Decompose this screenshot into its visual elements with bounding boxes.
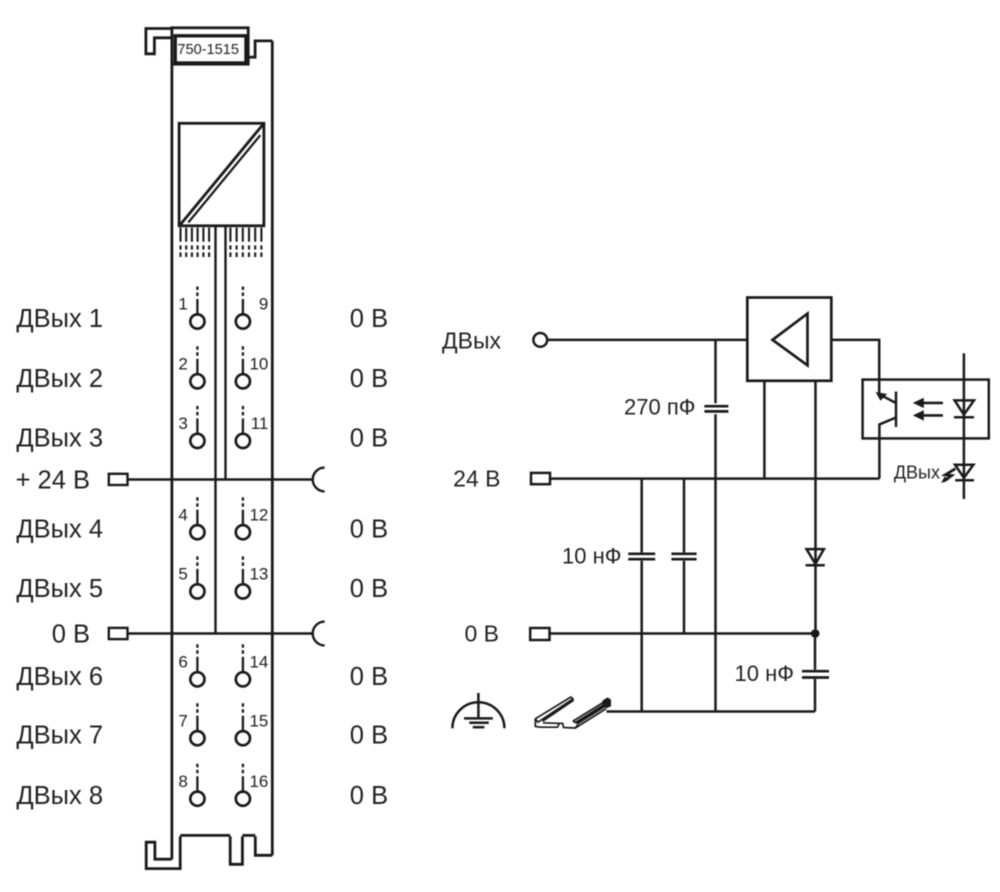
- amplifier triangle: [773, 314, 808, 366]
- svg-text:24 В: 24 В: [453, 466, 500, 492]
- svg-text:14: 14: [249, 653, 268, 672]
- pins under electronics block: [181, 228, 262, 257]
- foot bottom-middle tab: [230, 836, 242, 864]
- svg-text:0 В: 0 В: [350, 782, 388, 810]
- bus wire right (to +24V rail): [224, 227, 226, 480]
- svg-text:8: 8: [178, 772, 187, 791]
- svg-text:15: 15: [249, 711, 268, 730]
- svg-text:0 В: 0 В: [464, 621, 499, 647]
- svg-text:0 В: 0 В: [350, 365, 388, 393]
- svg-text:ДВых: ДВых: [894, 463, 940, 483]
- wire amp leg left: [763, 381, 766, 479]
- svg-text:+ 24 В: + 24 В: [16, 466, 90, 494]
- svg-text:0 В: 0 В: [350, 516, 388, 544]
- svg-text:9: 9: [259, 295, 268, 314]
- contact point 10: [236, 346, 269, 388]
- rail left ridge inner face: [542, 699, 574, 722]
- capacitor 10nF no.2 plates: [671, 554, 696, 559]
- rail end cap: [602, 697, 611, 708]
- foot bottom-right tab: [255, 836, 272, 855]
- contact point 7: [178, 703, 204, 745]
- pin group right (6 pins, solid + dashes): [230, 228, 261, 257]
- input terminal circle DVyh: [533, 333, 547, 347]
- wire amp output: [831, 340, 879, 394]
- pin group left (6 pins, solid + dashes): [181, 228, 210, 257]
- contact point 11: [236, 406, 269, 448]
- phototransistor emitter: [879, 418, 896, 479]
- capacitor 10nF no.1 plates: [628, 554, 655, 559]
- diode D1 cathode bar: [806, 564, 825, 567]
- wire amp leg right / diode branch: [814, 381, 817, 634]
- svg-text:10 нФ: 10 нФ: [735, 661, 794, 686]
- earth ground symbol: [452, 693, 504, 728]
- svg-text:0 В: 0 В: [350, 305, 388, 333]
- svg-text:3: 3: [178, 414, 187, 433]
- internal bus wires: [216, 227, 226, 634]
- DIN rail symbol: [535, 697, 611, 728]
- rail profile outline: [535, 719, 578, 728]
- amplifier box: [747, 298, 831, 381]
- electronics diagonal 2: [188, 135, 260, 222]
- phototransistor arrow: [876, 392, 888, 401]
- svg-text:ДВых 6: ДВых 6: [16, 663, 103, 691]
- svg-text:ДВых 8: ДВых 8: [16, 782, 103, 810]
- terminal box 24V: [531, 473, 550, 484]
- svg-text:12: 12: [249, 505, 268, 524]
- 0V feed rail: [109, 622, 325, 646]
- capacitor 270pF plates: [704, 406, 728, 411]
- svg-text:10 нФ: 10 нФ: [562, 543, 621, 568]
- module bottom edge: [180, 834, 255, 837]
- contact point 5: [178, 556, 204, 598]
- svg-text:10: 10: [249, 355, 268, 374]
- svg-text:2: 2: [178, 355, 187, 374]
- svg-text:7: 7: [178, 711, 187, 730]
- capacitor 10nF no.2 branch: [683, 479, 686, 634]
- svg-text:ДВых 1: ДВых 1: [16, 305, 103, 333]
- rail left ridge top face: [535, 697, 573, 722]
- arc 0V continuation: [313, 622, 325, 646]
- contact point 15: [236, 703, 269, 745]
- wire 0V rail: [128, 632, 313, 634]
- capacitor 270pF branch wire: [714, 340, 717, 712]
- svg-text:0 В: 0 В: [350, 722, 388, 750]
- diode D1: [807, 549, 824, 564]
- terminal box 0V: [530, 628, 549, 640]
- module right edge: [271, 41, 274, 855]
- svg-text:ДВых 2: ДВых 2: [16, 365, 103, 393]
- foot bottom-left: [146, 836, 180, 868]
- indicator LED DVyh triangle: [955, 465, 973, 478]
- ground rail: [607, 710, 816, 713]
- terminal box 0V: [109, 628, 128, 639]
- svg-text:16: 16: [249, 772, 268, 791]
- bus wire left (to 0V rail): [214, 227, 216, 634]
- svg-text:0 В: 0 В: [350, 575, 388, 603]
- contact point 4: [178, 497, 204, 539]
- optocoupler LED triangle: [955, 400, 974, 414]
- contact point 1: [178, 287, 204, 329]
- svg-text:ДВых 3: ДВых 3: [16, 424, 103, 452]
- indicator LED DVyh bar: [955, 479, 974, 482]
- module left edge: [170, 64, 173, 859]
- 24V rail: [550, 477, 880, 480]
- svg-text:11: 11: [251, 414, 269, 433]
- svg-text:4: 4: [178, 505, 187, 524]
- rail right ridge top face: [573, 702, 606, 723]
- svg-text:ДВых 5: ДВых 5: [16, 575, 103, 603]
- LED flash symbol: [944, 469, 956, 482]
- svg-text:0 В: 0 В: [350, 424, 388, 452]
- optocoupler box: [863, 380, 989, 439]
- LED wire vertical: [963, 353, 966, 499]
- contact point 16: [236, 764, 269, 806]
- svg-text:ДВых 4: ДВых 4: [16, 516, 103, 544]
- svg-text:ДВых 7: ДВых 7: [16, 722, 103, 750]
- svg-text:750-1515: 750-1515: [177, 42, 239, 58]
- electronics block: [179, 123, 264, 226]
- optocoupler light arrow 2: [913, 410, 943, 420]
- svg-text:270 пФ: 270 пФ: [624, 394, 695, 419]
- contact point 8: [178, 764, 204, 806]
- svg-text:0 В: 0 В: [52, 620, 90, 648]
- schematic text labels: [442, 328, 940, 687]
- mounting hook top-left: [146, 29, 172, 54]
- rail web front edge: [543, 722, 559, 725]
- wire +24V rail: [128, 478, 313, 480]
- capacitor 10nF no.1 branch: [640, 479, 643, 712]
- optocoupler LED bar: [954, 416, 974, 419]
- 0V rail: [550, 632, 816, 635]
- contact point 2: [178, 346, 204, 388]
- optocoupler light arrow 1: [913, 398, 943, 408]
- wire input to amplifier: [547, 339, 747, 342]
- capacitor 10nF no.3 plates: [802, 671, 829, 677]
- svg-text:13: 13: [249, 565, 268, 584]
- arc +24V continuation: [313, 468, 325, 492]
- svg-text:ДВых: ДВых: [442, 328, 501, 354]
- module top-right step: [248, 41, 272, 57]
- contact point 14: [236, 644, 269, 686]
- svg-text:6: 6: [178, 653, 187, 672]
- junction dot 0V/diode: [811, 629, 820, 638]
- rail right ridge front face: [575, 703, 609, 725]
- phototransistor base bar: [895, 392, 898, 428]
- svg-text:0 В: 0 В: [350, 663, 388, 691]
- contact point 13: [236, 556, 269, 598]
- capacitor 10nF no.3 branch: [814, 634, 817, 712]
- svg-text:5: 5: [178, 565, 187, 584]
- phototransistor collector wire: [879, 394, 896, 403]
- module label housing: [172, 28, 248, 64]
- text labels module: [16, 42, 389, 810]
- contact points: [178, 287, 268, 806]
- terminal box +24V: [109, 474, 128, 485]
- contact point 6: [178, 644, 204, 686]
- contact point 3: [178, 406, 204, 448]
- label box 750-1515: [175, 36, 246, 63]
- contact point 9: [236, 287, 269, 329]
- svg-text:1: 1: [178, 295, 187, 314]
- +24V feed rail: [109, 468, 325, 492]
- rail bottom back edge: [575, 709, 606, 728]
- electronics diagonal 1: [180, 124, 263, 225]
- contact point 12: [236, 497, 269, 539]
